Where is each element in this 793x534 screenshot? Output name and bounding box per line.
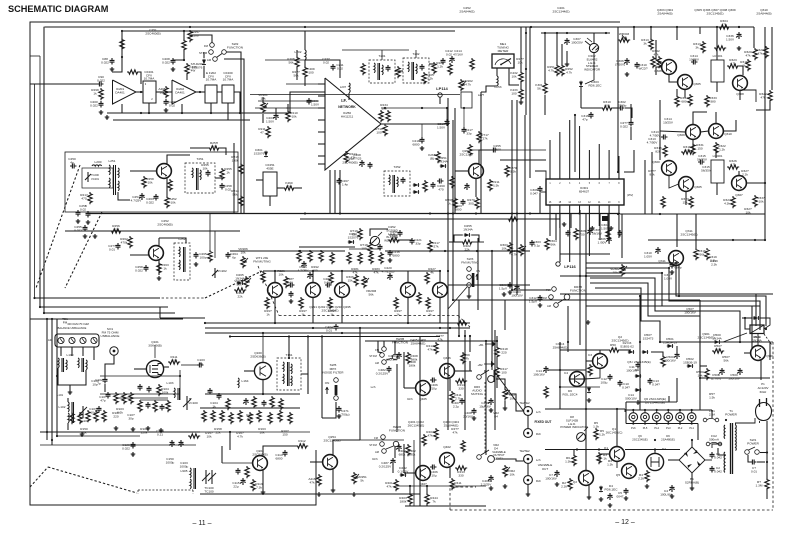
svg-text:AM: AM [375,450,379,454]
wire meter drop2 [525,27,527,115]
IC301 top wire 2 [559,132,561,179]
capacitor C255 [491,148,498,153]
wire meter drop1b [520,81,522,88]
svg-text:47k: 47k [310,480,315,484]
resistor R51 [588,364,592,376]
svg-text:500mA: 500mA [709,437,720,441]
resistor R4i inline [456,321,468,325]
ground [83,234,88,238]
wire am if rail [200,407,300,409]
wire t201 up [381,50,383,60]
trimmer TC200 [87,172,89,182]
IC301 pin drop 3 [569,205,571,262]
svg-text:10k: 10k [207,434,212,438]
resistor Rq291c [261,271,265,283]
resistor R342 [651,56,655,68]
resistor row b8 [268,412,272,424]
wire staircase 2 [586,268,760,330]
junction tr [633,26,635,28]
svg-text:+B2: +B2 [477,363,482,367]
svg-text:LEVEL: LEVEL [495,456,504,460]
T202 winding [408,62,409,72]
wire reg rail2 [545,408,625,410]
wire reg rail [545,449,609,451]
rail top of strip [122,30,455,32]
resistor fe R108 [166,400,170,412]
pot VR2l [503,465,507,477]
svg-text:L102: L102 [59,405,66,409]
ground [68,390,73,394]
label B1 arrow [485,342,495,346]
junction ps [576,448,578,450]
resistor bank R103 [114,392,118,404]
svg-text:TC102: TC102 [79,419,89,423]
wire opamp out [136,91,143,93]
ground [331,488,336,492]
svg-text:470k: 470k [121,240,128,244]
wire vert x465 [464,330,466,430]
IC301 top wire 5 [588,150,590,179]
capacitor C406u [430,378,437,383]
resistor R271 [488,179,492,191]
svg-text:56: 56 [537,86,541,90]
resistor R215 [470,58,474,70]
svg-text:0.022: 0.022 [90,103,98,107]
svg-text:2.2μ: 2.2μ [453,404,459,408]
svg-text:2SC1345(E): 2SC1345(E) [680,232,697,236]
svg-text:680k: 680k [399,452,406,456]
ground [110,67,115,71]
svg-text:Rch: Rch [536,432,541,436]
wire q901 em [760,360,762,380]
svg-text:47/16V: 47/16V [453,52,464,56]
wire frontend h1 [100,375,180,377]
resistor R5 [594,428,598,440]
capacitor C150 [169,440,174,447]
svg-text:500/10V: 500/10V [625,396,637,400]
resistor R227 [425,272,429,284]
wire to IC202 [160,91,172,93]
wire right net1 [747,182,765,184]
svg-text:330: 330 [458,386,463,390]
trimmer TC160 [205,470,207,484]
wire so1 [105,355,114,377]
lamp junction dots [632,409,634,411]
resistor R323 [727,64,739,68]
svg-text:LP116: LP116 [564,264,576,269]
wire q309 nets [693,112,707,124]
wire t251 [215,177,222,179]
wire t201-t202 [395,70,403,72]
wire cross h3 [560,275,622,277]
wire q252 base [130,254,149,256]
svg-text:UNBALANCE: UNBALANCE [101,334,120,338]
diode D502 [687,364,693,368]
IC301 top wire 8 [618,156,620,179]
wire base [130,170,157,172]
wire lch sw up [383,341,385,347]
transistor Q306 [662,60,677,75]
capacitor C263 [461,199,466,206]
ground [555,482,560,486]
svg-text:2SA844(B): 2SA844(B) [756,11,771,15]
wire q203 em [262,470,264,490]
junction meter [525,32,527,34]
svg-text:6800: 6800 [455,207,462,211]
wire q406 em [449,378,451,391]
resistor R292 [319,250,323,262]
svg-text:1.50V: 1.50V [437,125,446,129]
svg-text:TE2: TE2 [519,401,525,405]
resistor R211 [266,126,270,138]
switch bank Lch lever [386,358,393,360]
IC301 pin drop 2 [559,205,561,228]
lamp LP114 circle [438,93,442,97]
svg-text:1.5k: 1.5k [709,395,715,399]
resistor R414u [455,379,467,383]
diode D303 [579,81,583,87]
wire q row tops [274,271,276,283]
IC301 pin drop 7 [608,205,610,244]
svg-text:6800: 6800 [276,456,283,460]
junctions right [579,275,581,277]
pot VR202 [459,79,463,91]
svg-text:1N34A: 1N34A [463,227,473,231]
inner left wire x40 [39,56,41,270]
transistor Q307 [732,176,747,191]
transistor Q292 [306,283,321,298]
terminal screws [58,337,64,343]
svg-text:1k: 1k [226,170,230,174]
svg-text:56k: 56k [233,192,238,196]
svg-text:56k: 56k [212,144,217,148]
wire drop x760 [759,306,761,330]
wire cross h1 [620,213,765,215]
resistor R409l [461,440,465,452]
wire center v x308 [307,337,309,395]
wire x754 to r320 [753,44,755,48]
svg-text:POWER: POWER [725,412,737,416]
capacitor C207 [273,113,278,120]
wire x645 vert [644,160,646,214]
ground [171,67,176,71]
svg-text:455E: 455E [266,166,273,170]
coil L200 [92,165,102,166]
svg-text:1.50V: 1.50V [726,37,735,41]
varicap VC101 [186,396,188,410]
svg-text:TE2: TE2 [524,449,530,453]
resistor R266 [468,144,472,156]
wire mpx bus ext2 [448,322,470,324]
svg-text:300 OHM 75 OHM: 300 OHM 75 OHM [67,322,88,326]
filter EF202 [205,85,217,103]
svg-text:1.3k: 1.3k [565,459,571,463]
resistor R318 [714,46,726,50]
svg-text:47k: 47k [353,270,358,274]
resistor R258 [142,176,146,188]
resistor R224 [423,180,427,192]
wire det2 [400,239,412,241]
resistor row b10 [288,412,292,424]
svg-text:10k: 10k [759,199,764,203]
wire lc3001 bottom [716,82,718,92]
svg-text:FUNCTION: FUNCTION [389,428,405,432]
wire vtrunk9 [639,296,641,410]
resistor row b9 [278,410,282,422]
ground sw3 [467,294,472,298]
resistor R337 [753,195,757,207]
svg-text:1.2k: 1.2k [427,76,433,80]
wire t161 out [301,374,308,394]
capacitor C90 [97,82,104,87]
svg-text:100: 100 [361,246,366,250]
resistor row b2 [211,410,215,422]
bus left low y432 [40,431,200,433]
wire q253 em [475,178,477,197]
svg-text:47k: 47k [438,337,443,341]
wire fm osc down2 [214,231,216,258]
svg-text:1.5k: 1.5k [493,183,499,187]
svg-text:6800: 6800 [393,253,400,257]
wire q309-q310 [700,131,708,132]
wire d255 loop [454,235,463,242]
relay RL1 box [750,325,764,334]
wire bridge leads [668,459,679,461]
capacitor C306 [538,186,543,193]
capacitor C217 [444,119,449,126]
diode D2 [628,350,634,354]
wire q3 net [584,368,600,379]
wire staircase 6 [595,288,660,342]
pot VR303 [618,38,630,42]
svg-text:220: 220 [501,350,506,354]
ground [489,486,494,490]
switch bank Rch AM [382,449,387,454]
svg-text:PL3: PL3 [666,426,671,430]
wire d303 down [580,87,582,108]
bridge D1 diamond [679,447,705,473]
resistor R255e [168,179,172,191]
switch lever [217,54,223,58]
svg-text:1S2076: 1S2076 [348,235,359,239]
resistor R316c [746,59,750,71]
wire left col drop3 [56,319,58,436]
resistor K208 [295,56,299,68]
wire L202 [304,31,306,50]
wire q306 net [656,40,662,64]
svg-text:4.7k: 4.7k [730,61,736,65]
jack TE2-3 [524,455,533,464]
wire r310 [581,107,601,109]
svg-text:10k: 10k [518,60,523,64]
wire [217,91,222,93]
wire q402 em [449,467,451,478]
capacitor C120 [131,442,136,449]
junctions bus [304,212,306,214]
wire x234 vert [233,143,235,214]
dashed divider h [279,315,458,317]
transformer L252 dashed box [174,243,190,280]
diode D5 [599,486,603,492]
switch SW2 circle ST.FM [209,50,214,55]
svg-text:L251: L251 [109,159,116,163]
junction [183,59,185,61]
wire mpx bus2 [205,327,455,329]
svg-text:AM: AM [375,361,379,365]
capacitor C318 [629,120,634,127]
resistor bank2 r2 [78,412,82,424]
resistor K26B [436,151,440,163]
coil L103 [174,388,175,398]
resistor R717 [477,131,481,143]
resistor R234 [388,238,400,242]
ground [80,432,85,436]
switch SW3 circles [467,267,472,272]
svg-text:1000μ: 1000μ [166,460,175,464]
wire vtrunk x495 [494,330,496,430]
ground [503,484,508,488]
wire jacks gnd [527,415,529,428]
resistor R343 [657,56,661,68]
svg-text:2SC1345(E): 2SC1345(E) [611,338,628,342]
capacitor Cq292 [288,283,295,288]
filter LC3001 box [711,60,724,82]
right page dashed border right [772,342,774,510]
resistor R6 [572,454,576,466]
resistor R310 [601,106,613,110]
wire r251 drop [556,33,558,64]
switch bank Lch common [392,354,397,359]
wire q252 net [159,238,186,243]
wire vr201 h [250,94,460,96]
svg-text:1k: 1k [301,312,305,316]
ground [131,452,136,456]
svg-text:10/25V: 10/25V [663,120,674,124]
svg-text:0.1/25V: 0.1/25V [398,469,410,473]
wire coils gnd [58,368,86,385]
wire l207 [348,93,350,100]
capacitor C290 [387,273,392,280]
svg-text:0.022: 0.022 [122,446,130,450]
wire l253 drop [480,92,482,214]
resistor R444 [425,493,429,505]
svg-text:10k: 10k [685,148,690,152]
meter ME1 box [492,54,514,68]
svg-text:1k: 1k [330,312,334,316]
wire sw3 gnd [468,287,470,294]
transformer L251 winding [109,165,110,175]
resistor R313b [649,38,653,50]
svg-text:POWER: POWER [747,441,759,445]
svg-text:10k: 10k [148,180,153,184]
switch SW2 common [222,50,227,55]
diode D251 [440,164,446,168]
wire x420 low [419,494,421,506]
wire mpx bus ext3 [455,327,470,329]
op-amp IC250 IF network [325,78,381,170]
wire frontend v1 [179,370,181,400]
bottom rail 1 [107,112,247,114]
svg-text:(B): (B) [430,156,434,160]
wire det h1 [381,107,447,109]
svg-text:1.50V: 1.50V [601,226,610,230]
am res4 [279,398,283,410]
svg-text:0.047: 0.047 [530,191,538,195]
svg-text:7k: 7k [432,499,436,503]
svg-text:0.2/125V: 0.2/125V [376,371,389,375]
resistor row b3 [220,410,224,422]
diode D504 [753,316,759,320]
wire x414 low [413,440,415,506]
wire t1 tap [718,448,726,455]
wire lch sw down [396,364,398,432]
resistor R25H [208,146,220,150]
svg-text:47k: 47k [453,430,458,434]
LED D302 arrows [585,41,590,45]
wire power vert x586 [585,470,587,478]
svg-text:INDICATOR: INDICATOR [584,68,601,72]
wire lp114 drop [454,108,456,214]
svg-text:FM: FM [374,436,378,440]
wire standby left [699,342,701,378]
capacitor C281 [508,282,513,289]
wire vtrunk3 [524,115,526,408]
resistor R303 [508,242,512,254]
svg-text:150: 150 [697,146,702,150]
svg-text:47k: 47k [374,270,379,274]
resistor R209 [303,66,307,78]
junction rch [409,485,411,487]
svg-text:47k: 47k [428,347,433,351]
svg-text:TE2: TE2 [524,401,530,405]
transistor Q309 [686,125,701,140]
capacitor C20 [750,460,757,465]
svg-text:180k: 180k [400,499,407,503]
resistor R400l [406,444,410,456]
capacitor C13 [648,378,653,385]
transistor Q305 [678,75,693,90]
wire fe r bank tops [140,399,168,401]
coil L101 [78,358,79,368]
svg-text:10k: 10k [510,472,515,476]
diode D501 [667,344,673,348]
capacitor C310 [618,106,625,111]
diode D250 [413,183,419,187]
T251 cap [206,170,211,177]
wire q311 drop [678,276,680,296]
IC301 top wire 3 [569,120,571,179]
svg-text:1p: 1p [199,361,203,365]
wire upper ch out [454,370,470,372]
svg-text:Q6 / 26C1345(E): Q6 / 26C1345(E) [627,360,650,364]
svg-text:0.022: 0.022 [97,78,105,82]
svg-text:3k: 3k [643,41,647,45]
transformer T1 primary top [723,425,726,439]
coil L202 [305,50,306,60]
wire drop x700 [699,300,701,410]
svg-text:0.02: 0.02 [169,103,175,107]
wire [112,57,122,72]
wire mpx bus1 [205,322,450,324]
resistor cluster R283 [369,252,373,264]
pot VR206 [241,256,245,268]
resistor R320b [764,46,768,58]
ground [317,492,322,496]
resistor R322 [768,90,772,102]
capacitor C268 [359,160,364,167]
wire top rail drop [753,27,755,48]
svg-text:0.022: 0.022 [162,60,170,64]
